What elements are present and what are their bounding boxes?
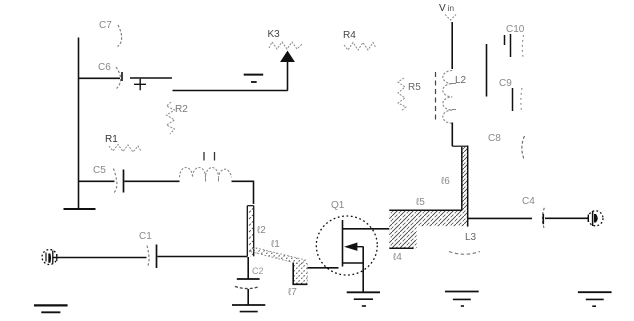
wire left rail: [78, 38, 80, 210]
wire gate: [308, 267, 339, 269]
wire Vin down: [451, 22, 453, 69]
microstrip l6 left edge: [461, 147, 463, 210]
capacitor C1 flat plate: [156, 245, 158, 269]
inductor L1: [180, 168, 232, 178]
capacitor C9 flat plate: [512, 88, 514, 111]
capacitor C5 curved plate: [114, 169, 117, 194]
capacitor C4 flat plate: [542, 214, 544, 224]
inductor L2 coil: [443, 71, 453, 124]
microstrip l6 right edge: [467, 146, 469, 227]
wire C5 to L1: [125, 180, 180, 182]
capacitor C7: [118, 25, 122, 47]
svg-text:C7: C7: [99, 20, 112, 31]
L3 arc: [449, 252, 480, 255]
resistor R5 zigzag: [398, 78, 406, 111]
svg-text:C5: C5: [93, 165, 106, 176]
wire C6 to right: [130, 77, 172, 79]
svg-text:R5: R5: [408, 82, 421, 93]
microstrip l1 diagonal: [250, 248, 306, 265]
plus sign of C6: [134, 79, 146, 91]
svg-text:C8: C8: [488, 133, 501, 144]
wire to C5: [79, 180, 115, 182]
svg-text:ℓ6: ℓ6: [441, 176, 450, 187]
transistor Q1 arrow: [344, 243, 357, 251]
arrow to K3: [287, 62, 289, 91]
capacitor C10 curved plate: [522, 35, 523, 57]
input connector J1: [42, 250, 57, 265]
capacitor C8 curve: [522, 136, 525, 159]
microstrip l5 top edge: [389, 209, 462, 211]
svg-text:Q1: Q1: [331, 200, 345, 211]
wire lower horizontal: [173, 90, 288, 92]
transistor Q1 source internal: [343, 262, 363, 264]
wire C2 to ground: [247, 289, 249, 305]
wire connector to C1: [52, 257, 146, 259]
transistor Q1 drain lead: [343, 228, 389, 230]
svg-text:L2: L2: [455, 75, 467, 86]
svg-text:ℓ5: ℓ5: [416, 197, 425, 208]
microstrip l4 bottom edge: [389, 247, 413, 249]
capacitor C6 curved plate: [116, 67, 121, 89]
Vin chevron: [445, 15, 456, 21]
svg-text:K3: K3: [268, 29, 281, 40]
svg-text:V: V: [439, 3, 446, 14]
wire L1 to corner: [232, 181, 254, 204]
transistor Q1 source lead: [362, 246, 364, 292]
capacitor C2 flat plate: [237, 278, 260, 280]
microstrip l6 hatch: [462, 147, 468, 226]
capacitor C2 curved plate: [235, 287, 259, 289]
svg-text:ℓ2: ℓ2: [257, 225, 266, 236]
svg-text:C2: C2: [252, 266, 264, 276]
output connector J2: [588, 211, 603, 226]
wire l6 to C4: [468, 217, 532, 219]
vertical wire segment: [486, 44, 488, 97]
inductor L1 label ticks: [204, 152, 215, 161]
resistor R2 zigzag: [167, 102, 175, 134]
resistor R4 zigzag: [344, 43, 376, 51]
ground below C2: [232, 304, 265, 306]
svg-text:C9: C9: [499, 78, 512, 89]
microstrip l4 hatch: [389, 226, 416, 248]
capacitor C4 curved plate: [542, 208, 544, 229]
capacitor C10 plates: [504, 35, 506, 45]
svg-text:R4: R4: [343, 30, 356, 41]
svg-text:L3: L3: [465, 232, 477, 243]
ground bottom left: [34, 304, 68, 306]
transistor Q1 channel bar: [342, 220, 344, 267]
svg-text:C6: C6: [98, 62, 111, 73]
svg-text:R1: R1: [105, 134, 118, 145]
svg-text:C4: C4: [522, 196, 535, 207]
wire C1 to node: [158, 256, 248, 258]
inductor L2 core dashed: [435, 72, 437, 123]
capacitor C1 curved plate: [147, 246, 149, 268]
battery cell symbol: [244, 74, 264, 76]
ground bar at rail bottom: [64, 208, 96, 210]
capacitor C9 curved plate: [521, 88, 522, 111]
svg-text:ℓ7: ℓ7: [288, 287, 297, 298]
capacitor C5 flat plate: [123, 170, 125, 193]
wire node down to C2: [247, 257, 249, 279]
wire L2 to strip: [451, 123, 453, 147]
microstrip l7: [293, 263, 307, 284]
resistor R1 zigzag: [109, 145, 141, 153]
capacitor C6 flat plate: [121, 72, 123, 81]
microstrip l2: [247, 206, 253, 257]
wire rail to C6: [79, 77, 121, 79]
ground bottom right: [578, 291, 612, 293]
svg-text:ℓ1: ℓ1: [271, 239, 280, 250]
resistor K3 zigzag: [269, 42, 302, 49]
ground below Q1: [347, 291, 380, 293]
svg-text:in: in: [448, 3, 455, 13]
svg-text:R2: R2: [175, 104, 188, 115]
svg-text:C10: C10: [506, 24, 525, 35]
svg-text:C1: C1: [139, 231, 152, 242]
svg-text:ℓ4: ℓ4: [393, 252, 402, 263]
microstrip l6 top connect: [452, 145, 467, 147]
wire C4 to connector: [545, 217, 588, 219]
ground mid right: [445, 291, 479, 293]
microstrip l5 hatch: [389, 210, 462, 226]
transistor Q1 circle: [316, 216, 377, 275]
